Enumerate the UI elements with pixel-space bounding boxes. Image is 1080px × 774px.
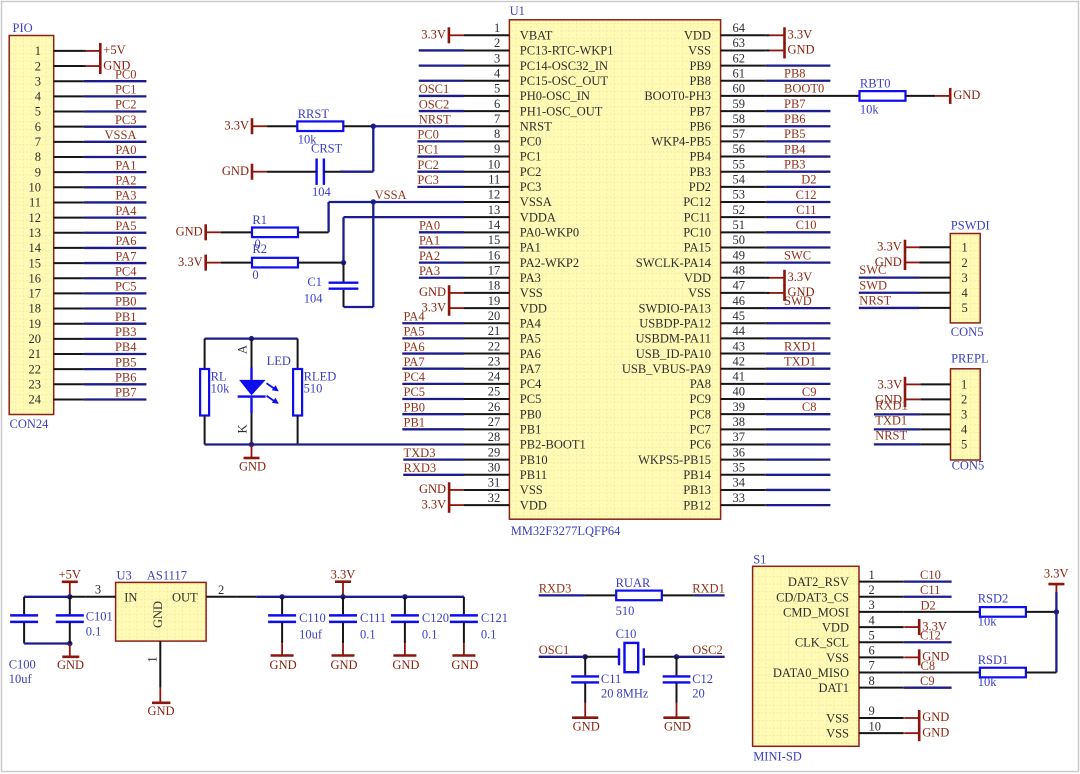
wire net SWD bbox=[859, 292, 919, 294]
wire (U1 pin 33) bbox=[766, 504, 831, 506]
svg-text:PB14: PB14 bbox=[683, 468, 712, 482]
U1 pin 63 (VSS) bbox=[688, 36, 766, 58]
wire net PA5 bbox=[84, 232, 146, 234]
svg-text:5: 5 bbox=[35, 105, 41, 119]
svg-text:GND: GND bbox=[419, 285, 446, 299]
ground symbol (S1 pin9) bbox=[904, 710, 949, 726]
svg-text:55: 55 bbox=[733, 157, 746, 171]
PREPL pin 1 bbox=[921, 378, 968, 392]
U1 pin 47 (VSS) bbox=[688, 279, 766, 301]
svg-text:11: 11 bbox=[488, 173, 500, 187]
svg-text:GND: GND bbox=[330, 658, 357, 672]
svg-text:27: 27 bbox=[488, 415, 501, 429]
wire net NRST bbox=[859, 307, 919, 309]
C101 labels bbox=[86, 610, 113, 639]
U1 pin 38 (PC7) bbox=[689, 415, 765, 437]
U1 pin 40 (PC9) bbox=[689, 385, 765, 407]
U1 pin 39 (PC8) bbox=[689, 400, 765, 422]
resistor R2 bbox=[252, 242, 298, 282]
ground symbol (C101) bbox=[57, 644, 84, 673]
junction LED cathode rail bbox=[249, 442, 254, 447]
junction C111 bbox=[340, 594, 345, 599]
svg-text:PA2-WKP2: PA2-WKP2 bbox=[520, 256, 579, 270]
svg-text:TXD3: TXD3 bbox=[404, 446, 436, 460]
svg-text:CRST: CRST bbox=[311, 142, 343, 156]
svg-text:PA15: PA15 bbox=[684, 241, 711, 255]
svg-text:PC0: PC0 bbox=[417, 128, 439, 142]
svg-text:PC4: PC4 bbox=[404, 370, 426, 384]
wire net RXD1 bbox=[694, 594, 725, 596]
svg-text:GND: GND bbox=[573, 720, 600, 734]
svg-text:CON5: CON5 bbox=[952, 459, 985, 473]
S1 pin 6 (VSS) bbox=[826, 644, 904, 665]
wire net PA7 bbox=[84, 262, 146, 264]
junction LED anode rail bbox=[249, 336, 254, 341]
svg-text:GND: GND bbox=[922, 725, 949, 739]
PIO pin 24 bbox=[29, 393, 84, 407]
wire bbox=[84, 50, 86, 52]
U1 pin 9 (PC1) bbox=[464, 142, 541, 164]
svg-text:44: 44 bbox=[733, 324, 746, 338]
wire (U1 pin 35) bbox=[766, 474, 831, 476]
svg-text:VDD: VDD bbox=[684, 29, 711, 43]
wire (U1 pin 34) bbox=[766, 489, 831, 491]
svg-text:VDDA: VDDA bbox=[520, 210, 556, 224]
svg-text:VSS: VSS bbox=[826, 651, 849, 665]
svg-text:CON24: CON24 bbox=[10, 417, 50, 431]
PIO pin 17 bbox=[29, 287, 84, 301]
wire net PB0 bbox=[402, 413, 464, 415]
U1 pin 60 (BOOT0-PH3) bbox=[644, 82, 765, 104]
C100 labels bbox=[9, 658, 36, 687]
svg-text:46: 46 bbox=[733, 294, 746, 308]
svg-text:RXD1: RXD1 bbox=[875, 398, 908, 412]
svg-text:PB6: PB6 bbox=[115, 371, 137, 385]
svg-text:C11: C11 bbox=[601, 672, 621, 686]
wire bbox=[24, 596, 70, 598]
svg-text:IN: IN bbox=[124, 590, 137, 604]
svg-text:GND: GND bbox=[239, 459, 266, 473]
svg-text:9: 9 bbox=[494, 142, 500, 156]
wire net PB5 bbox=[766, 140, 831, 142]
wire net PA4 bbox=[402, 322, 464, 324]
wire net PA0 bbox=[419, 231, 464, 233]
wire net PB3 bbox=[84, 338, 146, 340]
svg-text:4: 4 bbox=[961, 423, 968, 437]
U1 pin 14 (PA0-WKP0) bbox=[464, 218, 579, 240]
wire C12 top bbox=[676, 657, 678, 676]
svg-text:16: 16 bbox=[488, 248, 501, 262]
ground symbol (U1 pin18) bbox=[419, 285, 464, 301]
svg-text:3: 3 bbox=[35, 74, 41, 88]
PIO pin 1 bbox=[35, 44, 84, 58]
wire bbox=[204, 416, 206, 445]
svg-text:21: 21 bbox=[29, 347, 42, 361]
junction VDDA node bbox=[341, 260, 346, 265]
wire bbox=[24, 642, 70, 644]
junction +5V input bbox=[67, 594, 72, 599]
svg-text:PC14-OSC32_IN: PC14-OSC32_IN bbox=[520, 59, 608, 73]
PIO pin 7 bbox=[35, 135, 84, 149]
wire bbox=[298, 262, 344, 264]
U1 pin 29 (PB10) bbox=[464, 445, 548, 467]
ground symbol (C121) bbox=[451, 643, 478, 672]
svg-text:1: 1 bbox=[962, 241, 968, 255]
wire NRST to CRST bbox=[372, 126, 374, 171]
wire net C12 bbox=[766, 201, 831, 203]
svg-text:R2: R2 bbox=[252, 242, 267, 256]
svg-text:10uf: 10uf bbox=[299, 627, 323, 641]
junction RSD2/3.3V bbox=[1054, 609, 1059, 614]
svg-text:U3: U3 bbox=[117, 569, 132, 583]
wire net NRST bbox=[373, 125, 464, 127]
svg-text:AS1117: AS1117 bbox=[147, 569, 187, 583]
svg-text:C12: C12 bbox=[692, 672, 713, 686]
U1 pin 23 (PA7) bbox=[464, 354, 541, 376]
wire net VSSA bbox=[329, 201, 465, 203]
wire bbox=[644, 656, 677, 658]
svg-text:13: 13 bbox=[488, 203, 501, 217]
wire 3.3V to RSD2 bbox=[1055, 592, 1057, 612]
svg-text:PB12: PB12 bbox=[683, 498, 711, 512]
wire net PC4 bbox=[402, 383, 464, 385]
wire bbox=[221, 231, 252, 233]
svg-text:PB3: PB3 bbox=[689, 165, 711, 179]
svg-text:VSSA: VSSA bbox=[105, 128, 137, 142]
PIO pin 18 bbox=[29, 302, 84, 316]
wire net OSC1 bbox=[419, 95, 465, 97]
ground symbol (PREPL pin2) bbox=[875, 392, 921, 407]
resistor R1 bbox=[252, 213, 298, 237]
PSWDI pin 5 bbox=[919, 301, 968, 315]
svg-text:PB7: PB7 bbox=[689, 104, 711, 118]
svg-text:19: 19 bbox=[29, 317, 42, 331]
svg-text:10uf: 10uf bbox=[9, 672, 33, 686]
svg-text:53: 53 bbox=[733, 188, 746, 202]
PREPL pin 5 bbox=[921, 438, 968, 452]
svg-text:12: 12 bbox=[29, 211, 42, 225]
wire 3.3V rail bbox=[256, 596, 464, 598]
U1 pin 33 (PB12) bbox=[683, 491, 765, 513]
wire net TXD3 bbox=[403, 458, 464, 460]
svg-text:3.3V: 3.3V bbox=[421, 300, 446, 314]
svg-text:13: 13 bbox=[29, 226, 42, 240]
svg-text:0.1: 0.1 bbox=[360, 627, 376, 641]
svg-text:62: 62 bbox=[733, 51, 746, 65]
wire bbox=[298, 231, 329, 233]
wire (U1 pin 37) bbox=[766, 443, 831, 445]
wire C11 top bbox=[584, 657, 586, 676]
svg-text:PREPL: PREPL bbox=[951, 352, 989, 366]
wire net SWC bbox=[859, 276, 919, 278]
svg-text:1: 1 bbox=[869, 568, 875, 582]
U1 pin 51 (PC10) bbox=[683, 218, 765, 240]
svg-text:3.3V: 3.3V bbox=[421, 497, 446, 511]
svg-text:CON5: CON5 bbox=[951, 325, 984, 339]
wire LED top rail bbox=[205, 337, 298, 339]
U1 pin 52 (PC11) bbox=[684, 203, 766, 225]
svg-text:NRST: NRST bbox=[875, 428, 907, 442]
wire bbox=[1026, 672, 1057, 674]
svg-text:17: 17 bbox=[29, 287, 42, 301]
ground symbol (R1) bbox=[176, 224, 221, 240]
wire net RXD1 bbox=[874, 413, 921, 415]
wire bbox=[766, 34, 770, 36]
wire bbox=[343, 263, 345, 282]
svg-text:5: 5 bbox=[961, 438, 967, 452]
svg-text:3.3V: 3.3V bbox=[877, 240, 902, 254]
svg-text:TXD1: TXD1 bbox=[784, 355, 816, 369]
svg-text:C8: C8 bbox=[802, 400, 817, 414]
svg-text:C10: C10 bbox=[616, 627, 637, 641]
PIO pin 3 bbox=[35, 74, 84, 88]
ground symbol (RBT0) bbox=[935, 88, 980, 104]
wire C111 top bbox=[342, 597, 344, 615]
svg-text:C110: C110 bbox=[299, 611, 326, 625]
svg-text:1: 1 bbox=[961, 378, 967, 392]
svg-text:C120: C120 bbox=[422, 611, 449, 625]
svg-text:35: 35 bbox=[733, 460, 746, 474]
U1 pin 54 (PD2) bbox=[689, 173, 766, 195]
svg-text:PC8: PC8 bbox=[689, 407, 711, 421]
svg-text:3.3V: 3.3V bbox=[788, 270, 813, 284]
U1 pin 46 (SWDIO-PA13) bbox=[639, 294, 766, 316]
wire net C10 bbox=[766, 231, 831, 233]
ground symbol (U1 pin63) bbox=[770, 42, 815, 58]
connector S1 MINI-SD bbox=[753, 553, 859, 764]
svg-text:NRST: NRST bbox=[520, 119, 552, 133]
U1 pin 4 (PC15-OSC_OUT) bbox=[464, 66, 608, 88]
wire net PB3 bbox=[766, 171, 831, 173]
svg-text:63: 63 bbox=[733, 36, 746, 50]
svg-text:20: 20 bbox=[692, 686, 705, 700]
PREPL pin 4 bbox=[921, 423, 968, 437]
svg-text:51: 51 bbox=[733, 218, 746, 232]
PIO pin 12 bbox=[29, 211, 84, 225]
svg-text:29: 29 bbox=[488, 445, 501, 459]
wire net PC5 bbox=[402, 398, 464, 400]
S1 pin 8 (DAT1) bbox=[818, 674, 903, 695]
U1 pin 45 (USBDP-PA12) bbox=[639, 309, 765, 331]
wire VSSA riser bbox=[372, 202, 374, 307]
svg-text:VDD: VDD bbox=[520, 301, 547, 315]
svg-text:OSC1: OSC1 bbox=[539, 643, 570, 657]
wire net C10 bbox=[904, 580, 952, 582]
U1 pin 61 (PB8) bbox=[689, 66, 765, 88]
svg-text:8: 8 bbox=[869, 674, 875, 688]
svg-text:CD/DAT3_CS: CD/DAT3_CS bbox=[776, 590, 849, 604]
svg-text:10k: 10k bbox=[860, 102, 880, 116]
svg-text:RXD1: RXD1 bbox=[784, 339, 817, 353]
svg-text:6: 6 bbox=[35, 120, 41, 134]
ground symbol (C11) bbox=[572, 703, 600, 734]
svg-text:BOOT0-PH3: BOOT0-PH3 bbox=[644, 89, 711, 103]
connector PREPL (CON5) bbox=[951, 352, 989, 473]
wire C110 top bbox=[281, 597, 283, 615]
svg-text:PC2: PC2 bbox=[520, 165, 542, 179]
svg-text:VDD: VDD bbox=[822, 621, 849, 635]
wire bbox=[267, 171, 317, 173]
S1 pin 9 (VSS) bbox=[826, 704, 904, 725]
svg-text:A: A bbox=[236, 345, 250, 354]
svg-text:43: 43 bbox=[733, 339, 746, 353]
svg-text:10: 10 bbox=[869, 719, 882, 733]
svg-text:RRST: RRST bbox=[298, 107, 330, 121]
svg-text:10k: 10k bbox=[978, 675, 998, 689]
wire net PC3 bbox=[417, 186, 464, 188]
ground symbol (U1 pin47) bbox=[770, 285, 815, 301]
svg-text:45: 45 bbox=[733, 309, 746, 323]
wire net PB7 bbox=[84, 398, 146, 400]
wire C121 top bbox=[463, 597, 465, 615]
svg-text:VSS: VSS bbox=[688, 44, 711, 58]
svg-text:PA1: PA1 bbox=[520, 241, 541, 255]
wire bbox=[251, 339, 253, 368]
svg-text:C10: C10 bbox=[796, 218, 817, 232]
svg-text:R1: R1 bbox=[252, 213, 267, 227]
svg-text:PB4: PB4 bbox=[689, 150, 711, 164]
svg-text:C101: C101 bbox=[86, 610, 113, 624]
svg-text:PC3: PC3 bbox=[115, 113, 137, 127]
svg-text:PC0: PC0 bbox=[115, 67, 137, 81]
wire net RXD3 bbox=[539, 594, 585, 596]
svg-text:PA6: PA6 bbox=[115, 234, 136, 248]
led LED bbox=[236, 345, 291, 434]
svg-text:PC2: PC2 bbox=[115, 98, 137, 112]
svg-text:3.3V: 3.3V bbox=[788, 28, 813, 42]
svg-text:PC1: PC1 bbox=[417, 143, 439, 157]
svg-text:36: 36 bbox=[733, 445, 746, 459]
PSWDI pin 4 bbox=[919, 286, 969, 300]
svg-text:D2: D2 bbox=[921, 598, 936, 612]
svg-text:PA2: PA2 bbox=[115, 173, 136, 187]
svg-text:RBT0: RBT0 bbox=[860, 77, 891, 91]
svg-text:1: 1 bbox=[35, 44, 41, 58]
PIO pin 4 bbox=[35, 90, 84, 104]
wire net PB4 bbox=[766, 155, 831, 157]
PSWDI pin 3 bbox=[919, 271, 968, 285]
S1 pin 1 (DAT2_RSV) bbox=[788, 568, 904, 589]
svg-text:U1: U1 bbox=[510, 4, 525, 18]
svg-text:GND: GND bbox=[419, 482, 446, 496]
svg-text:48: 48 bbox=[733, 263, 746, 277]
svg-text:17: 17 bbox=[488, 263, 501, 277]
connector PSWDI (CON5) bbox=[950, 218, 989, 338]
svg-text:USBDP-PA12: USBDP-PA12 bbox=[639, 316, 711, 330]
svg-text:PC2: PC2 bbox=[417, 158, 439, 172]
svg-text:PB10: PB10 bbox=[520, 453, 548, 467]
svg-text:C11: C11 bbox=[796, 203, 816, 217]
svg-text:RXD1: RXD1 bbox=[692, 582, 725, 596]
S1 pin 5 (CLK_SCL) bbox=[795, 628, 904, 649]
wire bbox=[662, 594, 694, 596]
wire net C8 bbox=[904, 672, 980, 674]
ground symbol (CRST) bbox=[222, 164, 267, 180]
svg-text:PC5: PC5 bbox=[520, 392, 542, 406]
svg-text:GND: GND bbox=[451, 658, 478, 672]
capacitor C1 104 bbox=[304, 275, 359, 306]
wire bbox=[766, 277, 770, 279]
wire net BOOT0 bbox=[766, 95, 860, 97]
svg-text:PA3: PA3 bbox=[520, 271, 541, 285]
resistor RSD2 10k bbox=[978, 591, 1026, 628]
svg-text:PC6: PC6 bbox=[689, 438, 711, 452]
svg-text:47: 47 bbox=[733, 279, 746, 293]
ground symbol (S1 pin6) bbox=[904, 649, 949, 665]
svg-text:RXD3: RXD3 bbox=[404, 461, 437, 475]
U1 pin 59 (PB7) bbox=[689, 97, 765, 119]
svg-text:PB1: PB1 bbox=[404, 416, 426, 430]
svg-text:VDD: VDD bbox=[684, 271, 711, 285]
svg-text:PB5: PB5 bbox=[784, 127, 806, 141]
svg-text:1: 1 bbox=[146, 656, 160, 662]
resistor RSD1 10k bbox=[978, 653, 1026, 689]
svg-text:30: 30 bbox=[488, 460, 501, 474]
junction C120 bbox=[402, 594, 407, 599]
wire net PA3 bbox=[84, 201, 146, 203]
svg-text:BOOT0: BOOT0 bbox=[784, 82, 824, 96]
regulator U3 AS1117 bbox=[116, 569, 207, 642]
wire bbox=[766, 292, 770, 294]
wire C101 top bbox=[69, 597, 71, 615]
junction VSSA node bbox=[371, 199, 376, 204]
wire net PB6 bbox=[84, 383, 146, 385]
svg-text:16: 16 bbox=[29, 271, 42, 285]
svg-text:2: 2 bbox=[961, 393, 967, 407]
U1 pin 41 (PA8) bbox=[690, 370, 766, 392]
wire C12 bottom bbox=[676, 683, 678, 702]
svg-text:40: 40 bbox=[733, 385, 746, 399]
svg-text:PD2: PD2 bbox=[689, 180, 711, 194]
wire bbox=[903, 656, 905, 658]
wire (U1 pin 44) bbox=[766, 337, 831, 339]
ground symbol (C12) bbox=[663, 703, 691, 734]
svg-text:12: 12 bbox=[488, 188, 501, 202]
U1 pin 34 (PB13) bbox=[683, 476, 765, 498]
svg-text:PC9: PC9 bbox=[689, 392, 711, 406]
wire bbox=[267, 125, 297, 127]
PIO pin 23 bbox=[29, 378, 84, 392]
resistor RBT0 bbox=[860, 77, 906, 117]
svg-text:2: 2 bbox=[218, 583, 224, 597]
wire net PA6 bbox=[402, 352, 464, 354]
svg-text:C9: C9 bbox=[920, 674, 935, 688]
power 3.3V symbol (S1 pin4) bbox=[904, 619, 947, 635]
PIO pin 5 bbox=[35, 105, 84, 119]
wire net OSC2 bbox=[419, 110, 465, 112]
svg-text:WKPS5-PB15: WKPS5-PB15 bbox=[638, 453, 711, 467]
U1 pin 10 (PC2) bbox=[464, 157, 541, 179]
svg-text:PC1: PC1 bbox=[115, 83, 137, 97]
svg-text:VSS: VSS bbox=[688, 286, 711, 300]
svg-text:LED: LED bbox=[267, 354, 291, 368]
C121 labels bbox=[481, 611, 508, 641]
U1 pin 8 (PC0) bbox=[464, 127, 541, 149]
wire bbox=[344, 306, 374, 308]
svg-text:18: 18 bbox=[29, 302, 42, 316]
svg-text:7: 7 bbox=[494, 112, 500, 126]
svg-text:GND: GND bbox=[788, 285, 815, 299]
svg-text:54: 54 bbox=[733, 173, 746, 187]
svg-text:104: 104 bbox=[312, 185, 332, 199]
svg-text:26: 26 bbox=[488, 400, 501, 414]
U1 pin 62 (PB9) bbox=[689, 51, 765, 72]
svg-text:PA0: PA0 bbox=[419, 219, 440, 233]
wire net VDDA bbox=[344, 216, 465, 218]
PIO pin 6 bbox=[35, 120, 84, 134]
svg-text:PA7: PA7 bbox=[115, 249, 136, 263]
svg-text:SWCLK-PA14: SWCLK-PA14 bbox=[636, 256, 712, 270]
